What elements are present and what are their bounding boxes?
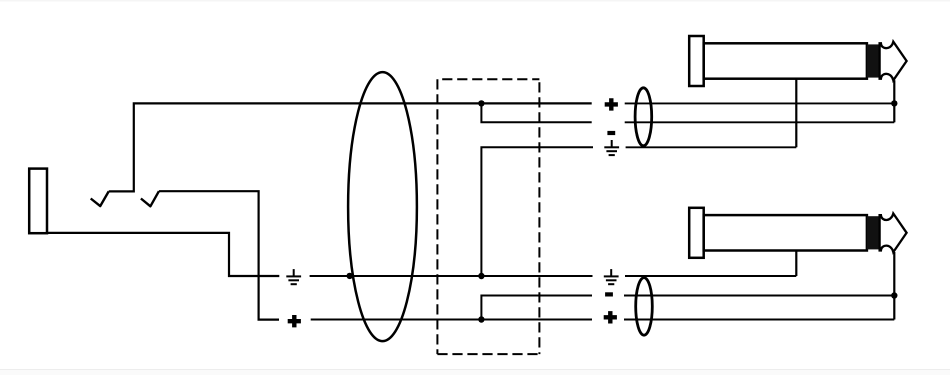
node ring/minus split — [478, 316, 484, 322]
wire shield branch up to J2 — [481, 147, 593, 276]
page top edge — [0, 0, 950, 2]
wire minus to jack J2 — [625, 121, 895, 123]
wire minus branch (bottom) — [481, 296, 592, 320]
cable entry ellipse (bottom) — [636, 278, 653, 336]
mono jack J2 tip — [880, 42, 907, 81]
wire plus to jack J3 — [624, 319, 894, 321]
wire tip-contact to hot line — [109, 103, 592, 191]
label plus (top) — [605, 98, 618, 110]
wire J2 tip drop — [893, 80, 895, 122]
stereo jack J1 tip contact — [91, 191, 109, 206]
cable entry ellipse (top) — [635, 88, 652, 146]
mono jack J2 cap — [689, 36, 704, 86]
node J3 tip junction — [891, 292, 897, 298]
mono jack J2 insulator ring — [867, 44, 880, 77]
ground symbol (left) — [286, 269, 301, 285]
mono jack J2 body — [704, 43, 867, 78]
label minus (bottom) — [605, 292, 613, 296]
page bottom edge — [0, 369, 950, 370]
mono jack J3 tip — [880, 214, 907, 253]
wire ring line to box — [311, 319, 592, 321]
node J2 tip junction — [891, 100, 897, 106]
label plus (bottom) — [604, 311, 617, 323]
wire shield bus — [310, 275, 593, 277]
node shield split — [478, 273, 484, 279]
wire J2 sleeve drop — [795, 79, 797, 148]
stereo jack J1 sleeve terminal — [29, 169, 47, 234]
label plus (left) — [288, 315, 301, 327]
mono jack J3 cap — [689, 208, 704, 258]
wire minus branch (top) — [481, 103, 591, 122]
ground symbol (top) — [604, 140, 619, 156]
wire plus to jack J2 — [625, 102, 895, 104]
node shield to cable screen — [347, 273, 353, 279]
stereo jack J1 ring contact — [141, 191, 159, 206]
unbalancing dashed box — [437, 78, 539, 80]
node tip/minus split — [478, 100, 484, 106]
wire sleeve run from J1 — [47, 233, 279, 276]
wire ground to J3 sleeve — [625, 275, 796, 277]
mono jack J3 body — [704, 215, 867, 250]
wire ground to J2 sleeve — [626, 146, 797, 148]
wire ring-contact run — [159, 191, 279, 319]
mono jack J3 insulator ring — [867, 216, 880, 249]
wire minus to jack J3 — [624, 295, 894, 297]
ground symbol (bottom) — [604, 269, 619, 285]
cable screen ellipse — [348, 72, 417, 341]
wire J3 tip drop — [893, 252, 895, 320]
wire J3 sleeve drop — [795, 250, 797, 276]
label minus (top) — [607, 131, 615, 135]
